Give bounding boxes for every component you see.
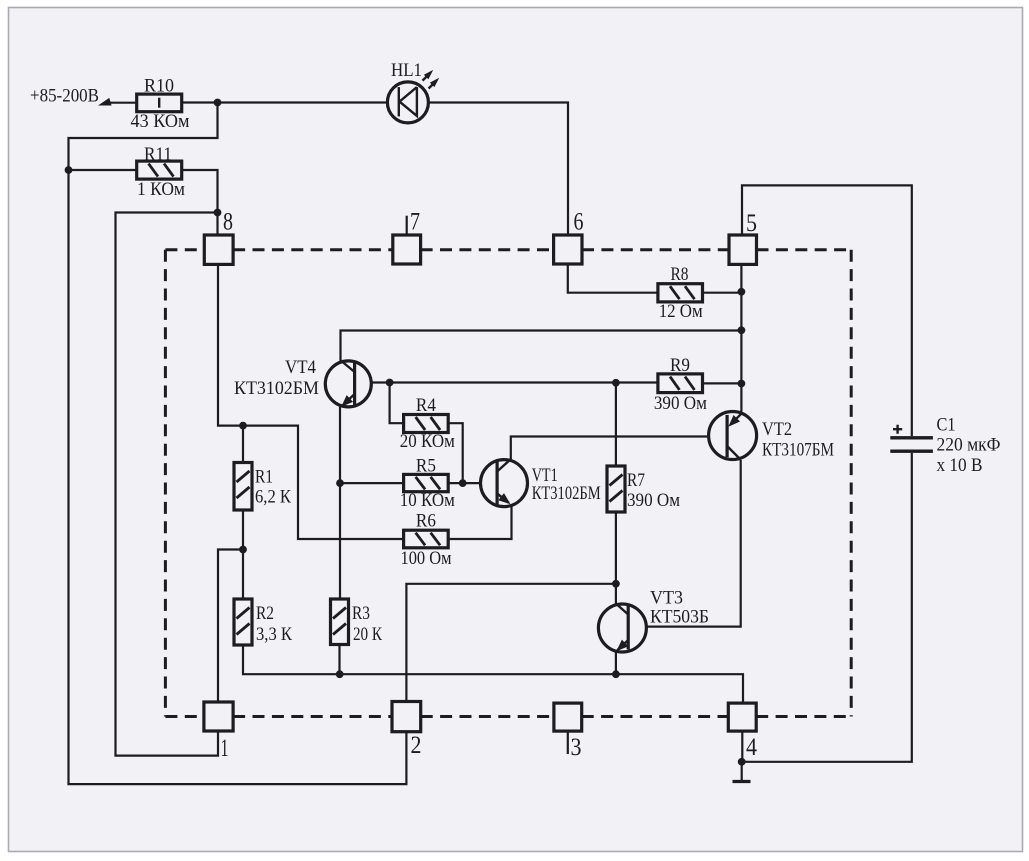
wire (703, 292, 742, 294)
wire (338, 645, 340, 675)
wire (568, 264, 658, 292)
svg-text:HL1: HL1 (391, 60, 422, 81)
svg-text:3: 3 (571, 734, 582, 761)
transistor VT3 (598, 588, 709, 655)
pin 8 (204, 235, 233, 264)
resistor R8 (658, 264, 703, 322)
node junction (214, 209, 222, 217)
svg-text:20 КОм: 20 КОм (400, 431, 455, 452)
svg-text:6: 6 (574, 209, 584, 236)
ground (733, 762, 751, 782)
wire pin8 to R1/R6 (218, 264, 404, 539)
resistor R11 (137, 144, 185, 200)
svg-text:R8: R8 (671, 264, 689, 285)
svg-text:КТ3102БМ: КТ3102БМ (532, 483, 601, 504)
wire (182, 101, 387, 103)
node junction (738, 380, 746, 388)
pin 2 (392, 702, 421, 732)
wire VT2 collector to VT3 base (628, 460, 741, 627)
svg-text:100 Ом: 100 Ом (401, 548, 452, 569)
node junction (612, 580, 620, 588)
node junction (459, 479, 467, 487)
svg-text:2: 2 (411, 732, 422, 759)
dashed IC boundary right (850, 250, 853, 717)
wire (703, 382, 742, 384)
resistor R6 (401, 511, 452, 570)
wire (740, 264, 742, 411)
svg-text:4: 4 (746, 734, 757, 761)
dashed IC boundary left (164, 250, 167, 717)
svg-text:1: 1 (221, 735, 229, 762)
node junction (336, 670, 344, 678)
pin 3 (554, 703, 582, 731)
wire R4 branch (390, 383, 404, 424)
resistor R1 (234, 463, 291, 511)
node junction (738, 758, 746, 766)
svg-text:R9: R9 (670, 355, 690, 376)
pin 5 (729, 235, 757, 264)
svg-text:220 мкФ: 220 мкФ (937, 435, 1001, 456)
svg-text:+85-200В: +85-200В (30, 86, 99, 107)
wire pin4 to ground (741, 731, 743, 762)
svg-text:43 КОм: 43 КОм (131, 111, 190, 132)
node junction (214, 99, 222, 107)
node junction (239, 422, 247, 430)
svg-text:20 К: 20 К (353, 624, 382, 645)
svg-text:390 Ом: 390 Ом (654, 393, 707, 414)
svg-text:x 10 В: x 10 В (937, 455, 983, 476)
resistor R4 (400, 395, 455, 452)
wire (69, 103, 407, 785)
node junction (65, 166, 73, 174)
wire R7 top branch (615, 383, 617, 466)
svg-text:12 Ом: 12 Ом (659, 301, 703, 322)
wire (69, 169, 137, 171)
resistor R2 (234, 599, 292, 645)
svg-text:R10: R10 (144, 76, 174, 97)
pin 7 (393, 235, 421, 264)
svg-text:R5: R5 (416, 456, 436, 477)
svg-text:390 Ом: 390 Ом (627, 490, 680, 511)
wire to pin 2 (406, 584, 616, 702)
wire ground bus (243, 645, 743, 703)
node junction (612, 670, 620, 678)
wire R1 top lead (242, 426, 244, 463)
pin 6 (554, 235, 582, 264)
pin 1 (204, 702, 233, 731)
wire (429, 103, 568, 236)
svg-text:VT3: VT3 (650, 588, 683, 609)
svg-text:3,3 К: 3,3 К (256, 624, 292, 645)
wire (742, 185, 912, 436)
wire R6 right to VT1 emitter (448, 507, 511, 540)
capacitor C1 (890, 415, 1000, 477)
wire (448, 423, 463, 483)
pin 4 (728, 703, 756, 731)
node junction (738, 288, 746, 296)
node junction (738, 326, 746, 334)
wire (104, 102, 137, 104)
svg-text:R7: R7 (627, 470, 645, 491)
wire VT4 base bus (373, 381, 658, 383)
wire ground bus to C1 (742, 453, 912, 762)
svg-text:8: 8 (223, 209, 233, 236)
svg-text:R4: R4 (416, 395, 436, 416)
svg-text:КТ503Б: КТ503Б (650, 607, 709, 628)
svg-text:VT2: VT2 (762, 419, 792, 440)
svg-text:7: 7 (410, 209, 420, 236)
dashed IC boundary bottom (165, 715, 851, 718)
wire R7 bottom / VT3 collector (615, 512, 617, 604)
wire (182, 170, 218, 235)
wire R5 left (340, 482, 404, 484)
svg-text:1 КОм: 1 КОм (137, 179, 185, 200)
svg-text:КТ3107БМ: КТ3107БМ (762, 440, 834, 461)
svg-text:КТ3102БМ: КТ3102БМ (234, 378, 319, 399)
resistor R9 (654, 355, 707, 414)
LED HL1 (387, 60, 441, 123)
wire (448, 482, 479, 484)
svg-text:C1: C1 (937, 415, 956, 436)
svg-text:R6: R6 (416, 511, 436, 532)
node junction (239, 546, 247, 554)
wire VT4 emitter / R3 top (339, 407, 341, 599)
resistor R10 (131, 76, 190, 133)
resistor R7 (607, 466, 680, 512)
svg-text:VT4: VT4 (285, 357, 316, 378)
svg-text:6,2 К: 6,2 К (255, 487, 291, 508)
node junction (612, 379, 620, 387)
node junction (386, 379, 394, 387)
wire R1-R2 link (242, 510, 244, 599)
dashed IC boundary top (165, 248, 851, 251)
svg-text:5: 5 (746, 210, 757, 237)
svg-text:R1: R1 (255, 467, 273, 488)
svg-text:R2: R2 (256, 603, 274, 624)
svg-text:R11: R11 (144, 144, 172, 165)
svg-text:R3: R3 (352, 603, 370, 624)
transistor VT2 (709, 412, 834, 461)
wire VT3 emitter (615, 652, 617, 675)
transistor VT1 (481, 459, 601, 507)
wire VT4 collector rail (341, 331, 742, 362)
node +85-200B arrow (97, 98, 112, 109)
svg-text:10 КОм: 10 КОм (400, 490, 455, 511)
node junction (336, 479, 344, 487)
resistor R3 (331, 599, 383, 645)
wire to pin 1 (218, 550, 243, 703)
resistor R5 (400, 456, 455, 512)
transistor VT4 (234, 357, 371, 410)
wire VT1 collector to VT2 base (511, 437, 707, 460)
wire (116, 213, 219, 756)
